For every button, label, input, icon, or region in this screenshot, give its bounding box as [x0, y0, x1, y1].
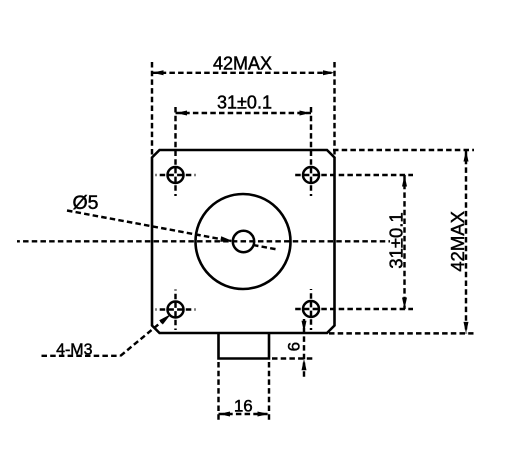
svg-text:4-M3: 4-M3: [56, 342, 93, 359]
svg-text:16: 16: [234, 397, 253, 416]
svg-text:Ø5: Ø5: [72, 192, 98, 214]
svg-text:31±0.1: 31±0.1: [217, 93, 272, 113]
svg-text:42MAX: 42MAX: [213, 54, 272, 74]
svg-text:42MAX: 42MAX: [447, 211, 468, 272]
svg-text:31±0.1: 31±0.1: [386, 212, 407, 268]
svg-text:6: 6: [285, 342, 304, 351]
